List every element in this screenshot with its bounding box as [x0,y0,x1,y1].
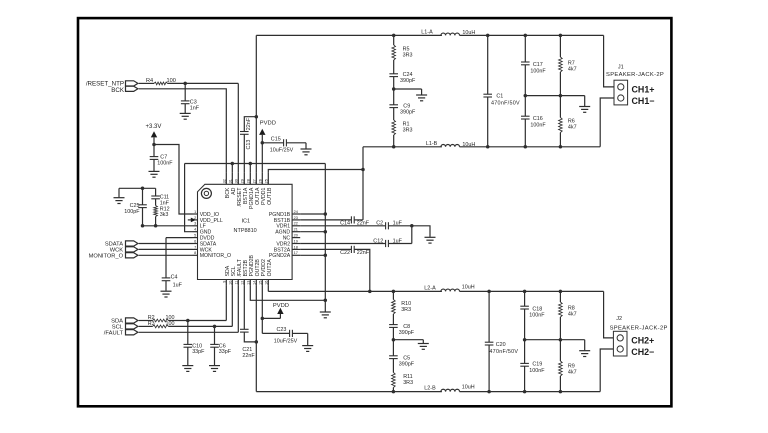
junction C13/OUT1A [255,115,259,119]
capacitor C17 100nF [521,35,546,95]
node CH1- label [632,96,655,106]
capacitor C7 100nF [150,145,174,172]
svg-text:PVDD: PVDD [273,303,289,309]
svg-text:28: 28 [247,179,251,183]
junction zobel2 mid [392,338,396,342]
junction chain2 top [392,290,396,294]
connector J2 SPEAKER-JACK-2P [610,316,668,356]
inductor L2-A 10uH [424,284,474,291]
ground (LF) [114,198,125,204]
resistor R3 100 [148,321,175,328]
svg-text:390pF: 390pF [399,362,415,368]
wire L1-A rail [256,34,603,36]
wire PGND2A [300,254,325,256]
junction mid R7 [559,94,563,98]
junction C1 bottom [486,145,490,149]
svg-text:9: 9 [223,281,227,283]
capacitor C9 390pF [389,103,416,120]
svg-text:15: 15 [259,281,263,285]
svg-text:C13: C13 [246,140,252,150]
svg-text:C22: C22 [340,250,350,256]
capacitor C15 10uF/25V [262,137,306,154]
svg-text:12: 12 [241,281,245,285]
capacitor C5 390pF [389,356,415,373]
svg-text:1uF: 1uF [173,282,183,288]
junction mid C17 [524,94,528,98]
capacitor C21 22nF [240,285,256,359]
ground (ch2 mid) [579,351,590,357]
svg-text:10uH: 10uH [462,142,475,148]
wire +3.3V to VDD_IO [154,145,193,215]
wire gnd bus vertical [324,164,326,312]
svg-text:1nF: 1nF [190,106,200,112]
ground (zobel1) [416,95,427,101]
junction R7 top [559,34,563,38]
junction R8 top [559,290,563,294]
capacitor C3 1nF [181,83,200,113]
svg-text:C17: C17 [533,62,543,68]
svg-text:MONITOR_O: MONITOR_O [200,253,231,259]
resistor R5 3R3 [392,35,413,73]
wire CH1+ wire [604,35,614,87]
net arrow VDD_PLL [188,218,196,223]
ground (C10) [182,366,193,372]
junction LF wire [141,224,158,228]
wire OUT2A down [267,285,269,291]
svg-text:1uF: 1uF [393,239,403,245]
capacitor C6 33pF [210,326,232,365]
wire L1-B rail [363,146,600,148]
resistor R2 100 [148,315,175,322]
wire L2-A rail [268,290,603,292]
wire zobel1 gnd [394,89,422,95]
wire zobel2 gnd [393,340,423,343]
svg-text:30: 30 [235,179,239,183]
wire R2 to SDA pin [169,285,227,320]
junction PGND1A gnd [249,162,253,166]
capacitor C22 22nF [300,246,370,292]
ground (C6) [209,366,220,372]
wire /FAULT [139,285,239,332]
ground (C23) [302,346,313,352]
junction C6 [213,325,217,329]
junction zobel1 mid [392,87,396,91]
svg-text:26: 26 [259,179,263,183]
junction C10 [186,319,190,323]
ground (C4) [161,291,172,297]
svg-text:100nF: 100nF [530,68,546,74]
resistor R11 3R3 [392,373,413,392]
capacitor C23 10uF/25V [262,327,307,345]
ground (C15) [301,149,312,155]
wire OUT1B riser [362,147,364,220]
svg-text:390pF: 390pF [400,78,416,84]
svg-text:5: 5 [194,234,196,238]
svg-text:16: 16 [265,281,269,285]
resistor R1 3R3 [392,120,413,147]
wire SDATA [139,243,193,245]
ground (C7) [149,171,160,177]
capacitor C11 1nF [151,188,169,206]
junction C22/L2-A [368,290,372,294]
svg-text:17: 17 [294,251,298,255]
connector 3-pin (SDA,SCL,/FAULT) [126,318,138,335]
capacitor C10 33pF [184,321,206,366]
svg-text:C4: C4 [171,275,178,281]
resistor R6 4k7 [559,96,577,147]
wire PGND1A stub [249,164,251,173]
svg-text:21: 21 [294,228,298,232]
junction C1 top [486,34,490,38]
svg-text:C12: C12 [373,239,383,245]
svg-text:8: 8 [194,251,196,255]
svg-text:C19: C19 [532,362,542,368]
wire gnd bus horizontal [185,163,326,165]
junction OUT1B [361,168,365,172]
wire C2 to ground [412,226,430,237]
IC IC1 NTP8810 body [198,184,293,279]
svg-text:3R3: 3R3 [401,307,411,313]
svg-text:3k3: 3k3 [160,212,169,218]
junction C17 top [524,34,528,38]
svg-text:100nF: 100nF [530,122,546,128]
wire CH1- wire [600,98,614,147]
svg-text:C20: C20 [496,342,506,348]
svg-text:R3: R3 [148,321,155,327]
wire /RESET_NTP to R4 [139,82,154,84]
svg-text:C18: C18 [532,306,542,312]
wire CH2+ wire [604,291,614,338]
svg-text:2: 2 [194,216,196,220]
capacitor C18 100nF [520,291,545,339]
junction PVDD2 [261,317,265,321]
junction PGND1B [324,212,328,216]
svg-text:C1: C1 [496,94,503,100]
svg-text:R4: R4 [146,78,153,84]
capacitor C19 100nF [520,340,545,392]
svg-text:22nF: 22nF [357,250,370,256]
junction chain1 top [392,34,396,38]
node CH2+ label [631,336,654,346]
svg-text:10uF/25V: 10uF/25V [270,148,294,154]
svg-text:C16: C16 [533,116,543,122]
junction C2/C12 [410,224,414,228]
wire SDA to R2 [139,320,153,322]
node CH1+ label [632,85,655,95]
junction R9 bottom [559,390,563,394]
svg-text:100pF: 100pF [124,209,140,215]
svg-text:R2: R2 [148,315,155,321]
svg-text:CH1−: CH1− [632,96,655,106]
svg-text:100nF: 100nF [529,368,545,374]
capacitor C12 1uF [300,226,412,247]
IC1 pin numbers [194,179,298,285]
svg-text:PGND2A: PGND2A [269,253,291,259]
wire mid rail ch1 [525,96,584,107]
junction mid R8 [559,338,563,342]
capacitor C20 470nF/50V [485,291,519,391]
svg-text:22nF: 22nF [246,117,252,130]
svg-text:390pF: 390pF [400,109,416,115]
wire AGND [300,231,325,233]
svg-text:IC1: IC1 [242,218,251,224]
wire OUT1A up [255,35,257,172]
resistor R7 4k7 [559,35,577,95]
ground (C2/C12) [425,237,436,243]
resistor R12 3k3 [154,206,170,226]
svg-text:OUT1B: OUT1B [267,187,273,205]
node SDATA/WCK/MONITOR_O labels [89,242,124,260]
junction +3.3V [152,143,156,147]
svg-text:6: 6 [194,239,196,243]
power +3.3V [146,124,162,144]
svg-text:BCK: BCK [111,87,125,94]
wire SCL to R3 [139,325,153,327]
svg-text:L2-A: L2-A [424,285,436,291]
svg-text:20: 20 [294,234,298,238]
power PVDD (top) [259,121,276,173]
svg-text:+3.3V: +3.3V [146,124,162,130]
svg-text:C15: C15 [271,137,281,143]
node SDA/SCL//FAULT labels [104,319,124,337]
svg-text:33pF: 33pF [219,349,232,355]
svg-text:L2-B: L2-B [424,386,436,392]
inductor L2-B 10uH [424,384,474,391]
svg-text:22: 22 [294,222,298,226]
svg-text:100nF: 100nF [529,313,545,319]
junction C21/OUT2B [255,340,259,344]
junction C19 bottom [523,390,527,394]
svg-text:470nF/50V: 470nF/50V [491,101,520,107]
svg-text:PVDD: PVDD [260,121,276,127]
wire LF rail [119,188,156,197]
svg-text:4k7: 4k7 [568,125,577,131]
capacitor C8 390pF [389,324,415,356]
junction AD gnd [231,162,235,166]
resistor R4 [146,78,176,85]
IC1 pin names [200,187,291,277]
capacitor C2 1uF [300,221,412,230]
junction PGND2A [324,254,328,257]
svg-text:4: 4 [194,228,196,232]
svg-text:31: 31 [229,179,233,183]
svg-text:10uH: 10uH [462,30,475,36]
wire AD stub [231,164,233,173]
svg-text:NTP8810: NTP8810 [234,228,257,234]
svg-text:23: 23 [294,216,298,220]
wire MONITOR_O [139,254,193,256]
junction mid C18 [523,338,527,342]
connector J1 SPEAKER-JACK-2P [606,64,664,104]
junction PVDD1/C15 [261,141,265,145]
wire PGND2B [250,285,325,300]
wire mid rail ch2 [525,340,585,351]
capacitor C24 390pF [389,72,416,105]
svg-text:C2: C2 [376,221,383,227]
svg-text:C23: C23 [277,327,287,333]
junction C20 top [487,290,491,294]
svg-text:CH1+: CH1+ [632,85,655,95]
svg-text:4k7: 4k7 [568,67,577,73]
junction C20 bottom [487,390,491,394]
svg-text:L1-B: L1-B [426,141,438,147]
junction PGND2B [324,299,328,303]
ground (ch1 mid) [579,107,590,113]
node CH2- label [631,347,654,357]
ground (C3) [180,113,191,119]
capacitor C14 22nF [300,216,370,226]
svg-text:33pF: 33pF [192,349,205,355]
svg-text:J2: J2 [616,316,622,322]
wire PGND1B [300,213,325,215]
svg-text:1uF: 1uF [393,221,403,227]
svg-text:MONITOR_O: MONITOR_O [89,254,124,260]
junction chain1 bottom [392,145,396,149]
svg-text:1: 1 [194,210,196,214]
svg-text:/FAULT: /FAULT [104,331,124,337]
junction C18 top [523,290,527,294]
ground (zobel2) [418,344,429,350]
wire WCK [139,248,193,250]
svg-text:18: 18 [294,245,298,249]
wire OUT1B bus [268,170,363,173]
resistor R8 4k7 [559,291,577,339]
node /RESET_NTP label [86,81,125,94]
svg-text:7: 7 [194,245,196,249]
capacitor C25 100pF [124,188,147,226]
svg-text:19: 19 [294,239,298,243]
svg-text:3R3: 3R3 [403,380,413,386]
wire PVDD2 down [261,285,263,333]
svg-text:L1-A: L1-A [421,29,433,35]
connector 2-pin (/RESET_NTP,BCK) [126,81,138,92]
svg-text:10uH: 10uH [462,284,475,290]
svg-text:J1: J1 [618,64,624,70]
capacitor C16 100nF [521,96,546,147]
connector 3-pin (SDATA,WCK,MONITOR_O) [126,241,138,258]
junction C16 bottom [524,145,528,149]
wire L2-B rail [256,391,600,393]
junction C3 [183,82,187,86]
svg-text:4k7: 4k7 [568,369,577,375]
svg-text:27: 27 [253,179,257,183]
border frame [78,18,671,406]
svg-text:3R3: 3R3 [403,52,413,58]
IC1 pin stubs [193,173,301,286]
wire BCK to BCK pin [139,89,227,173]
power PVDD (bottom) [262,303,289,318]
svg-text:SPEAKER-JACK-2P: SPEAKER-JACK-2P [606,72,664,78]
svg-text:SPEAKER-JACK-2P: SPEAKER-JACK-2P [610,325,668,331]
wire CH2- wire [600,349,613,392]
wire OUT2B down [255,285,257,391]
svg-text:22nF: 22nF [242,353,255,359]
svg-text:32: 32 [223,179,227,183]
wire R3 to SCL pin [169,285,233,326]
svg-text:10uF/25V: 10uF/25V [274,339,298,345]
wire R4 to /RESET pin [168,83,239,172]
svg-text:24: 24 [294,210,298,214]
svg-text:4k7: 4k7 [568,312,577,318]
svg-text:OUT2A: OUT2A [267,259,273,277]
junction AGND [324,230,328,234]
resistor R9 4k7 [559,340,577,392]
svg-text:10uH: 10uH [462,384,475,390]
capacitor C13 22nF [240,117,256,173]
resistor R10 3R3 [392,291,411,324]
svg-text:29: 29 [241,179,245,183]
capacitor C4 1uF [162,275,183,291]
junction R6 bottom [559,145,563,149]
wire GND pin to gnd bus [185,164,193,232]
wire DVDD [166,238,193,278]
svg-text:3: 3 [194,222,196,226]
svg-text:390pF: 390pF [399,330,415,336]
svg-text:470nF/50V: 470nF/50V [489,349,518,355]
svg-text:CH2+: CH2+ [631,336,654,346]
svg-text:CH2−: CH2− [631,347,654,357]
svg-text:14: 14 [253,281,257,285]
wire LF to pin [143,225,193,227]
svg-text:3R3: 3R3 [403,127,413,133]
junction C25 top [141,187,145,191]
capacitor C1 470nF/50V [483,35,520,146]
svg-text:25: 25 [265,179,269,183]
ground (main) [320,312,331,318]
svg-text:13: 13 [247,281,251,285]
inductor L1-B 10uH [426,141,475,148]
inductor L1-A 10uH [421,29,475,36]
svg-text:11: 11 [235,281,239,285]
svg-text:10: 10 [229,281,233,285]
junction chain2 bottom [392,390,396,394]
svg-text:100nF: 100nF [157,161,173,167]
